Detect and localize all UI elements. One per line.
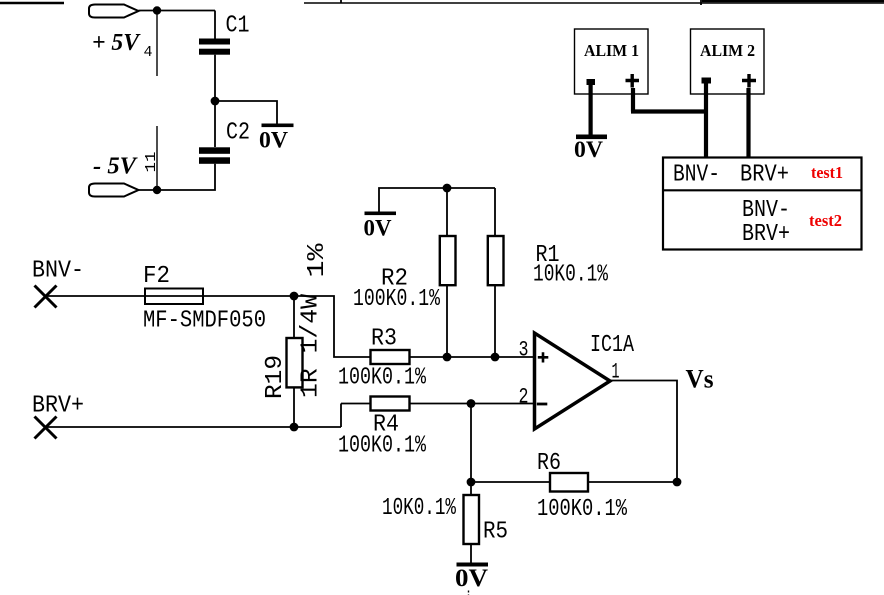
svg-text:100K0.1%: 100K0.1% <box>353 286 440 313</box>
svg-text:test2: test2 <box>809 211 842 230</box>
wire feedback left <box>471 481 550 483</box>
terminal plus ALIM2 <box>742 74 756 88</box>
wire R19 top <box>293 296 295 338</box>
wire C1 top <box>214 11 216 39</box>
ground 0V top <box>259 124 294 153</box>
wire feedback right <box>588 481 677 483</box>
wire R5 bottom <box>470 544 472 563</box>
wire BRV+ <box>46 404 371 428</box>
terminal plus ALIM1 <box>626 74 640 88</box>
svg-text:ALIM 2: ALIM 2 <box>700 41 755 60</box>
svg-text:+ 5V: + 5V <box>92 30 141 56</box>
svg-text:0V: 0V <box>364 216 392 241</box>
node midpoint <box>211 97 220 106</box>
svg-text:R6: R6 <box>537 450 561 477</box>
wire R2 bottom <box>446 285 448 357</box>
svg-text:0V: 0V <box>574 137 603 162</box>
node junction feedback <box>467 478 476 487</box>
wire pin stub <box>156 126 158 187</box>
wire <box>139 10 216 12</box>
wire thick ALIM2 plus to table <box>746 88 750 157</box>
svg-text:BNV-: BNV- <box>32 258 84 285</box>
capacitor C1 <box>199 39 230 55</box>
wire R3 to pin3 <box>410 356 534 358</box>
node junction output/feedback <box>673 478 682 487</box>
svg-text:100K0.1%: 100K0.1% <box>537 496 627 523</box>
svg-text:R19: R19 <box>262 355 289 399</box>
table test rows <box>663 158 862 250</box>
op-amp IC1A <box>535 333 611 429</box>
pin -5V connector <box>89 184 139 197</box>
wire pin stub <box>156 12 158 76</box>
svg-text:1R 1/4W: 1R 1/4W <box>298 293 325 398</box>
svg-text:BRV+: BRV+ <box>742 221 790 248</box>
node junction BNV- <box>290 292 299 301</box>
svg-text:R3: R3 <box>371 326 397 353</box>
svg-text:BNV-: BNV- <box>673 162 720 189</box>
ground 0V R-divider <box>364 212 397 241</box>
svg-text:F2: F2 <box>143 263 170 290</box>
svg-text:0V: 0V <box>259 128 288 153</box>
node junction BRV+ <box>290 423 299 432</box>
wire to ground <box>215 101 277 124</box>
wire inverting chain <box>470 404 472 496</box>
svg-text:0V: 0V <box>455 565 488 592</box>
wire C2 bottom <box>139 164 216 190</box>
svg-text:BRV+: BRV+ <box>740 162 789 189</box>
resistor R6 <box>550 473 588 492</box>
ground 0V R5 <box>455 563 488 595</box>
pin +5V connector <box>89 5 139 18</box>
wire C1 bottom to C2 top <box>214 55 216 147</box>
node junction top <box>443 184 452 193</box>
resistor R4 <box>371 397 410 411</box>
svg-text:2: 2 <box>519 385 529 410</box>
svg-text:R5: R5 <box>483 519 508 546</box>
box ALIM 2 <box>691 29 765 94</box>
wire R19 bottom <box>293 387 295 427</box>
wire thick ALIM1 minus to ground <box>588 82 592 135</box>
wire top link <box>379 188 495 236</box>
port X BNV- <box>35 286 57 308</box>
wire BNV- <box>46 295 295 297</box>
resistor R19 <box>287 338 303 387</box>
fuse F2 <box>145 289 203 305</box>
svg-text:3: 3 <box>519 338 529 363</box>
node junction -5V <box>153 186 161 194</box>
node junction +5V <box>153 6 161 14</box>
resistor R3 <box>371 350 410 364</box>
svg-text:1%: 1% <box>304 243 331 278</box>
svg-text:100K0.1%: 100K0.1% <box>338 433 426 460</box>
svg-text:- 5V: - 5V <box>93 154 138 180</box>
node junction R1/pin3 <box>491 353 500 362</box>
wire thick ALIM1 plus <box>631 88 706 112</box>
terminal minus ALIM2 <box>702 78 712 84</box>
svg-text:Vs: Vs <box>686 365 714 394</box>
resistor R1 <box>488 236 504 285</box>
ground 0V ALIM <box>574 135 607 163</box>
svg-text:MF-SMDF050: MF-SMDF050 <box>143 308 266 335</box>
svg-text:C2: C2 <box>226 120 250 147</box>
resistor R2 <box>440 236 456 285</box>
svg-text:BRV+: BRV+ <box>32 393 84 420</box>
svg-text:10K0.1%: 10K0.1% <box>382 495 456 522</box>
svg-text:test1: test1 <box>811 163 843 182</box>
box ALIM 1 <box>575 29 649 94</box>
svg-text:BNV-: BNV- <box>742 197 790 224</box>
svg-text:C1: C1 <box>226 13 250 40</box>
terminal minus ALIM1 <box>587 79 596 85</box>
port X BRV+ <box>35 417 57 439</box>
svg-text:ALIM 1: ALIM 1 <box>584 41 639 60</box>
capacitor C2 <box>199 147 230 164</box>
node junction R2/pin3 <box>443 353 452 362</box>
wire thick ALIM2 minus to table <box>704 83 708 157</box>
wire output <box>610 381 678 483</box>
svg-text:10K0.1%: 10K0.1% <box>533 262 608 289</box>
wire BNV- to R3 <box>294 296 371 357</box>
svg-text:4: 4 <box>144 44 153 61</box>
node junction pin2 <box>467 399 476 408</box>
svg-text:IC1A: IC1A <box>590 332 634 359</box>
svg-text:100K0.1%: 100K0.1% <box>338 365 426 392</box>
wire R4 to pin2 <box>410 403 534 405</box>
resistor R5 <box>464 495 480 544</box>
wire R1 bottom <box>494 285 496 357</box>
